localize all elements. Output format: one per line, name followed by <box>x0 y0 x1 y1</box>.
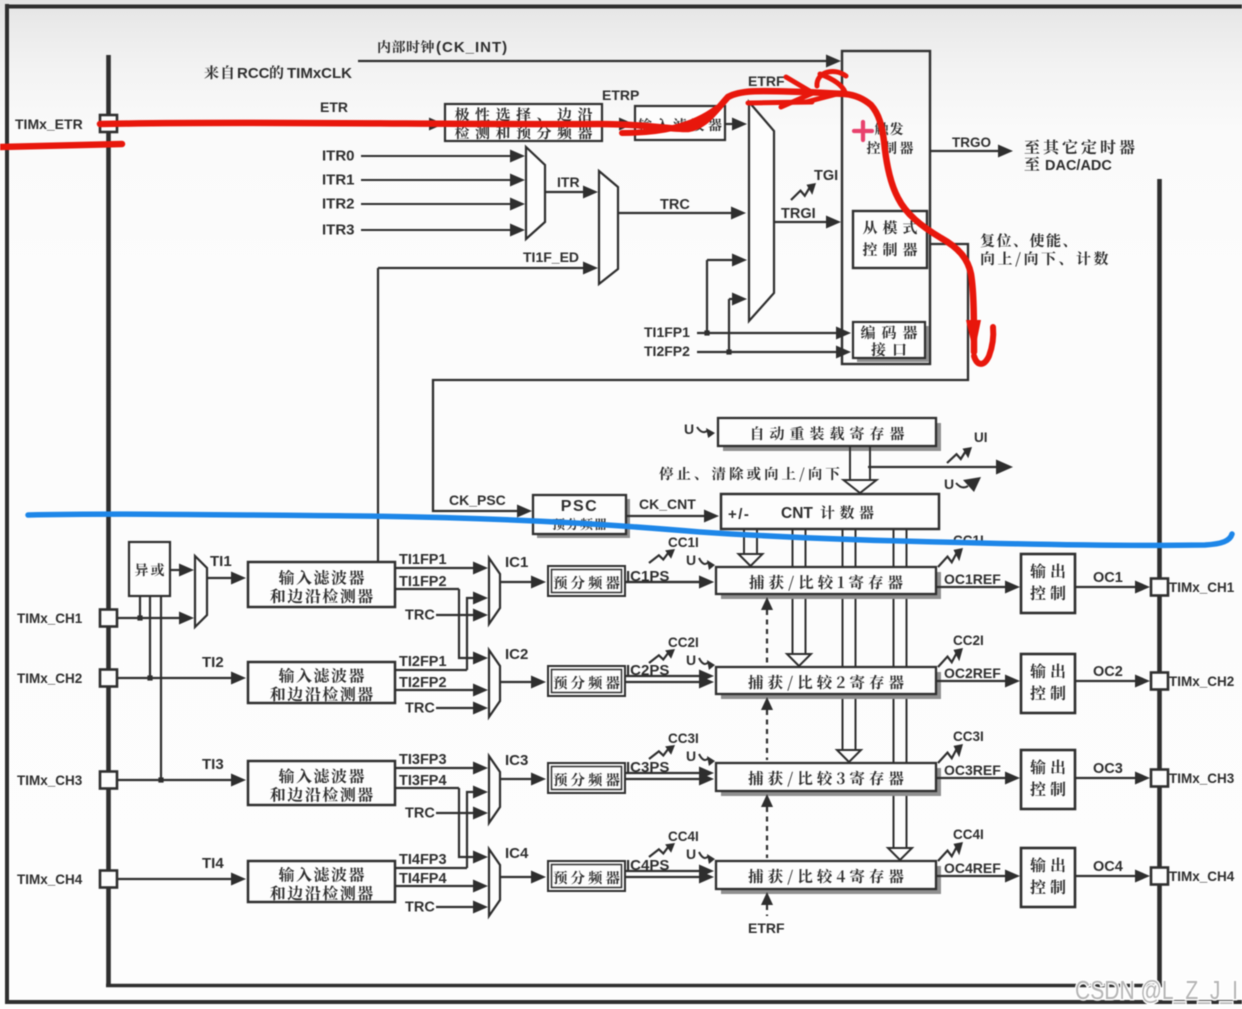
svg-text:OC1: OC1 <box>1093 570 1123 586</box>
svg-text:TRGO: TRGO <box>952 135 991 150</box>
svg-text:TRC: TRC <box>405 900 435 916</box>
svg-text:U: U <box>684 421 694 437</box>
svg-text:TIMx_CH4: TIMx_CH4 <box>1169 869 1235 884</box>
svg-text:OC4REF: OC4REF <box>944 860 1001 876</box>
svg-text:OC3: OC3 <box>1093 761 1123 777</box>
svg-text:TI2FP1: TI2FP1 <box>399 654 447 670</box>
svg-text:CK_CNT: CK_CNT <box>639 496 696 512</box>
svg-text:PSC: PSC <box>561 498 598 515</box>
svg-text:TI1: TI1 <box>210 553 232 570</box>
svg-text:ETR: ETR <box>320 99 348 115</box>
svg-text:ITR2: ITR2 <box>322 196 355 213</box>
svg-text:TI3FP3: TI3FP3 <box>399 752 447 768</box>
svg-text:TI3: TI3 <box>202 756 224 773</box>
svg-text:TIMx_CH3: TIMx_CH3 <box>1169 771 1235 786</box>
svg-text:ITR1: ITR1 <box>322 172 355 189</box>
svg-text:TIMxCLK: TIMxCLK <box>287 65 352 82</box>
svg-text:CNT: CNT <box>781 505 813 522</box>
svg-text:TRC: TRC <box>660 197 690 213</box>
svg-text:CC1I: CC1I <box>668 535 699 550</box>
svg-text:CSDN @L_Z_J_I: CSDN @L_Z_J_I <box>1075 975 1238 1005</box>
svg-text:TI1F_ED: TI1F_ED <box>523 249 579 265</box>
svg-text:OC3REF: OC3REF <box>944 762 1001 778</box>
svg-text:U: U <box>686 846 696 862</box>
svg-text:TI1FP1: TI1FP1 <box>399 552 447 568</box>
svg-text:TIMx_CH1: TIMx_CH1 <box>17 611 83 626</box>
svg-text:IC3: IC3 <box>505 752 528 769</box>
svg-text:DAC/ADC: DAC/ADC <box>1045 158 1112 174</box>
svg-text:CC3I: CC3I <box>668 731 699 746</box>
svg-text:TI2FP2: TI2FP2 <box>399 675 447 691</box>
svg-text:TI1FP1: TI1FP1 <box>644 324 690 340</box>
svg-text:ETRF: ETRF <box>748 920 785 936</box>
svg-text:UI: UI <box>974 430 988 445</box>
svg-text:TI2FP2: TI2FP2 <box>644 343 690 359</box>
svg-text:TRC: TRC <box>405 806 435 822</box>
svg-text:U: U <box>944 476 954 492</box>
svg-text:TRC: TRC <box>405 608 435 624</box>
svg-text:TRGI: TRGI <box>781 206 816 222</box>
svg-text:ITR: ITR <box>557 174 580 190</box>
svg-text:ITR3: ITR3 <box>322 222 355 239</box>
svg-text:TI4FP4: TI4FP4 <box>399 871 447 887</box>
svg-text:ITR0: ITR0 <box>322 148 355 165</box>
svg-text:TGI: TGI <box>814 168 838 184</box>
svg-text:IC2: IC2 <box>505 646 528 663</box>
svg-text:RCC: RCC <box>237 65 270 82</box>
svg-text:OC4: OC4 <box>1093 859 1123 875</box>
svg-text:OC2REF: OC2REF <box>944 665 1001 681</box>
svg-text:TIMx_CH4: TIMx_CH4 <box>17 872 83 887</box>
svg-text:TI1FP2: TI1FP2 <box>399 574 447 590</box>
svg-text:TIMx_CH3: TIMx_CH3 <box>17 773 83 788</box>
svg-text:IC4: IC4 <box>505 845 529 862</box>
svg-text:TI2: TI2 <box>202 654 224 671</box>
svg-text:TIMx_CH1: TIMx_CH1 <box>1169 580 1235 595</box>
svg-text:OC1REF: OC1REF <box>944 571 1001 587</box>
svg-text:IC1: IC1 <box>505 554 528 571</box>
svg-text:CC4I: CC4I <box>953 827 984 842</box>
svg-text:TI4FP3: TI4FP3 <box>399 852 447 868</box>
svg-text:+/-: +/- <box>728 506 750 523</box>
svg-text:TIMx_CH2: TIMx_CH2 <box>17 671 82 686</box>
svg-text:OC2: OC2 <box>1093 664 1123 680</box>
svg-text:U: U <box>686 748 696 764</box>
svg-text:ETRF: ETRF <box>748 73 785 89</box>
svg-text:U: U <box>686 652 696 668</box>
svg-text:TI3FP4: TI3FP4 <box>399 773 447 789</box>
svg-text:CC3I: CC3I <box>953 729 984 744</box>
svg-text:CC4I: CC4I <box>668 829 699 844</box>
svg-text:CC2I: CC2I <box>953 633 984 648</box>
svg-text:U: U <box>686 552 696 568</box>
svg-text:CC2I: CC2I <box>668 635 699 650</box>
svg-text:TIMx_CH2: TIMx_CH2 <box>1169 674 1234 689</box>
svg-text:TRC: TRC <box>405 701 435 717</box>
svg-text:TI4: TI4 <box>202 855 224 872</box>
svg-text:(CK_INT): (CK_INT) <box>436 39 508 56</box>
svg-text:ETRP: ETRP <box>602 87 639 103</box>
svg-text:TIMx_ETR: TIMx_ETR <box>15 116 83 132</box>
svg-text:CK_PSC: CK_PSC <box>449 492 506 508</box>
